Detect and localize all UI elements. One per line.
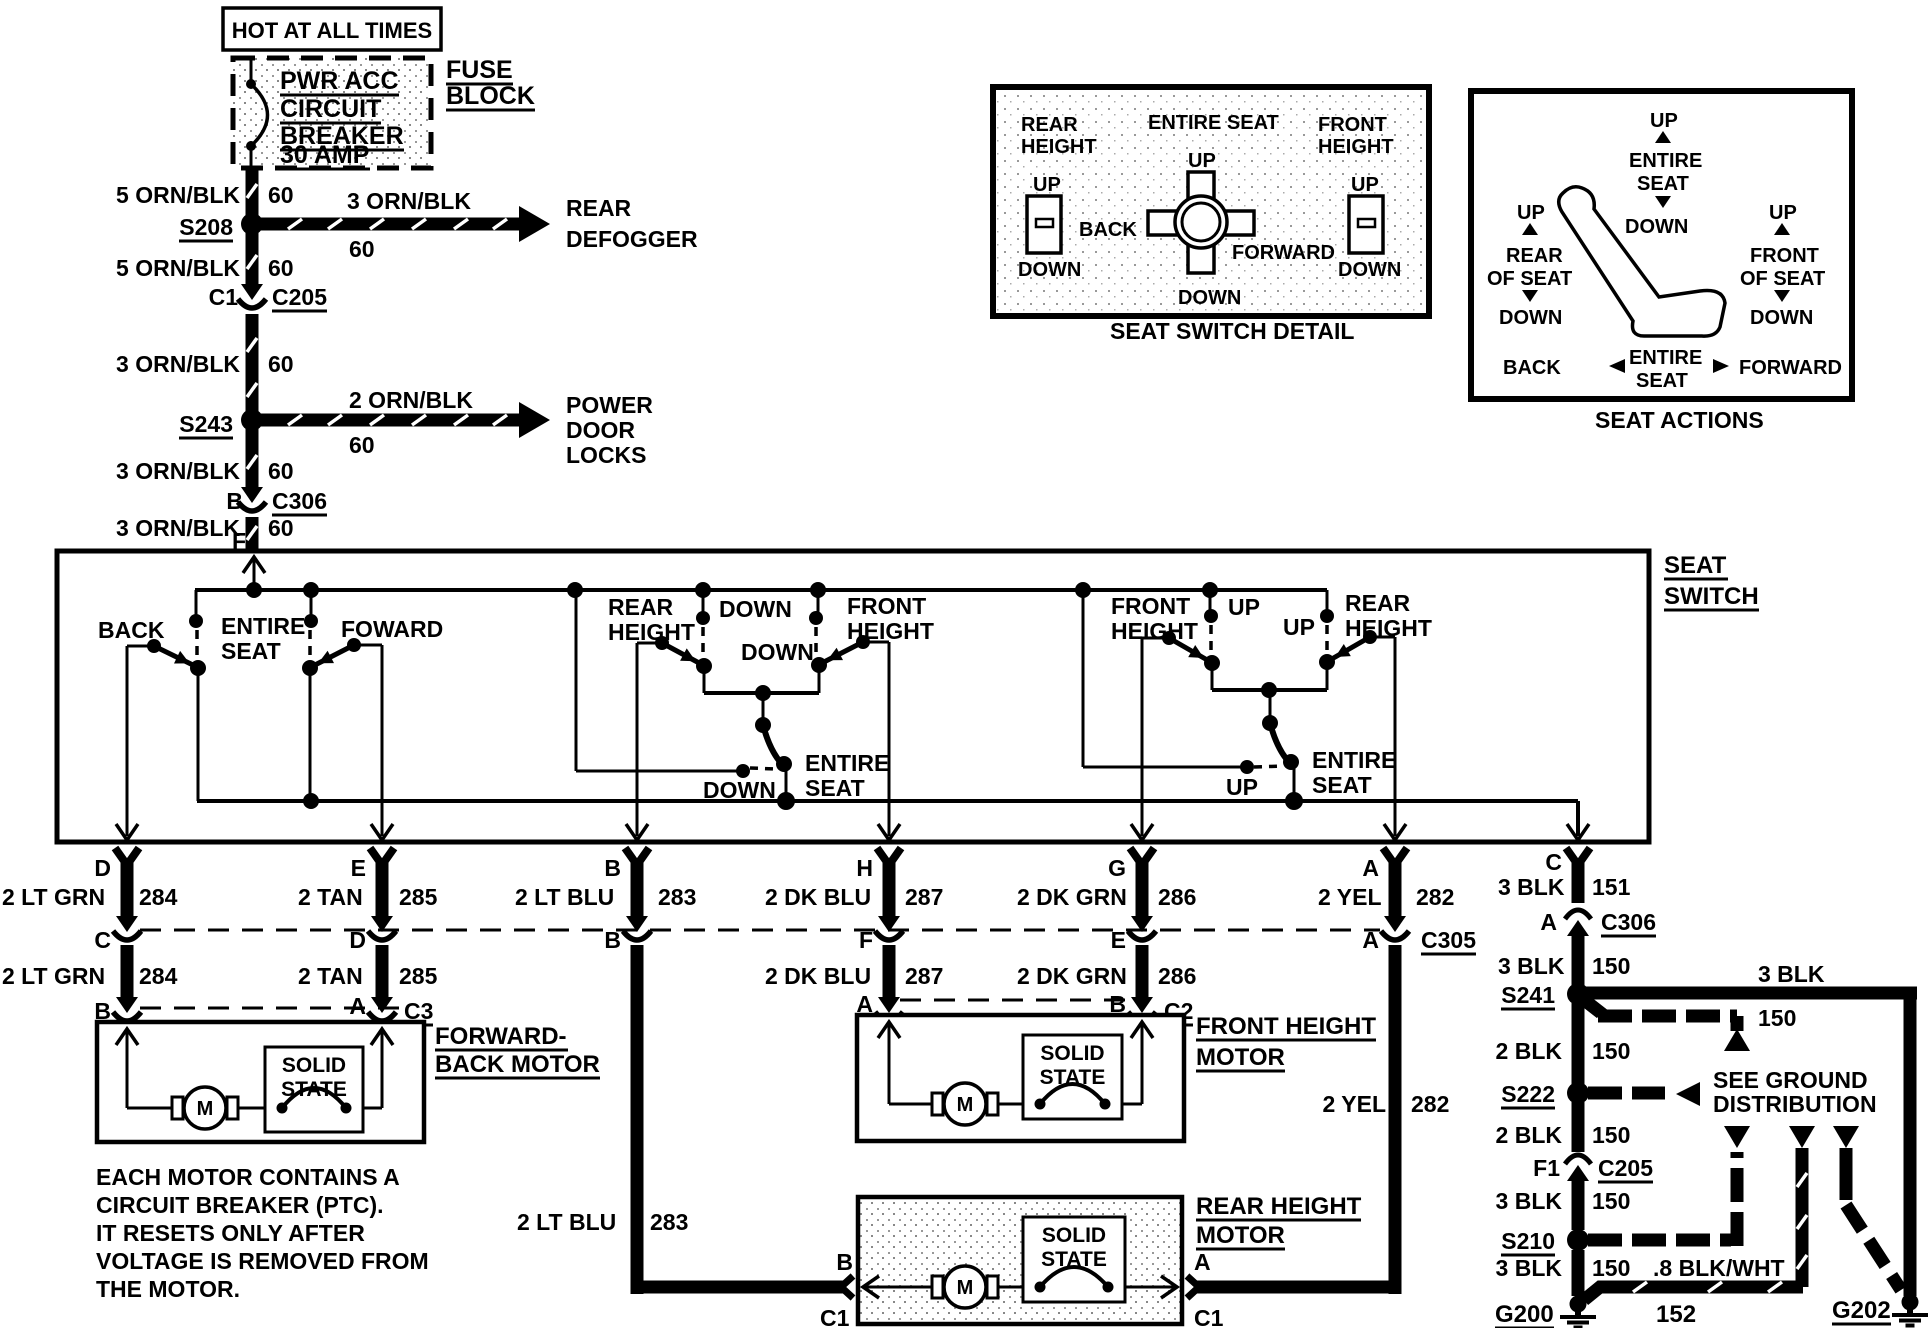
motor interior wire (864, 1286, 932, 1289)
svg-text:UP: UP (1517, 202, 1545, 224)
svg-text:HOT AT ALL TIMES: HOT AT ALL TIMES (232, 18, 432, 43)
svg-text:B: B (836, 1249, 853, 1275)
svg-text:286: 286 (1158, 884, 1196, 910)
ground G202 (1902, 1294, 1919, 1311)
svg-text:HEIGHT: HEIGHT (1111, 618, 1198, 644)
connector pin E of seat switch (370, 848, 382, 865)
switch ENTIRE SEAT (up) (1269, 690, 1272, 720)
svg-text:5 ORN/BLK: 5 ORN/BLK (116, 182, 240, 208)
svg-text:60: 60 (268, 255, 294, 281)
svg-text:M: M (957, 1094, 974, 1116)
svg-text:ENTIRE: ENTIRE (1629, 150, 1702, 172)
svg-text:DOWN: DOWN (1499, 307, 1562, 329)
connector C306 pin A (ground wire) (1565, 910, 1591, 919)
switch REAR HEIGHT (up) (1363, 630, 1377, 644)
wire 2 YEL 282 (down to rear motor) (1389, 945, 1402, 1294)
motor interior wires (126, 1030, 129, 1108)
svg-text:150: 150 (1592, 1255, 1630, 1281)
svg-text:2 DK GRN: 2 DK GRN (1017, 884, 1127, 910)
svg-text:284: 284 (139, 884, 178, 910)
svg-text:D: D (94, 855, 111, 881)
svg-text:SWITCH: SWITCH (1664, 583, 1759, 610)
svg-text:2 DK BLU: 2 DK BLU (765, 963, 871, 989)
svg-text:SOLID: SOLID (1040, 1042, 1104, 1065)
connector C305 pin B (626, 916, 648, 932)
svg-text:PWR ACC: PWR ACC (280, 67, 399, 95)
switch FRONT HEIGHT (up) (1075, 582, 1091, 598)
wire REAR HEIGHT contact to pin B (637, 642, 662, 645)
svg-text:60: 60 (268, 458, 294, 484)
connector pin H of seat switch (877, 848, 889, 865)
svg-text:BACK MOTOR: BACK MOTOR (435, 1051, 600, 1078)
connector pin B of seat switch (625, 848, 637, 865)
connector C305 pin D (371, 916, 393, 932)
svg-text:BACK: BACK (1503, 357, 1561, 379)
svg-text:3 ORN/BLK: 3 ORN/BLK (116, 515, 240, 541)
seat profile drawing (1559, 187, 1725, 336)
svg-text:BACK: BACK (1079, 219, 1137, 241)
svg-text:S241: S241 (1501, 982, 1555, 1008)
svg-text:G: G (1108, 855, 1126, 881)
connector pin G of seat switch (1130, 848, 1142, 865)
svg-text:UP: UP (1351, 174, 1379, 196)
svg-text:FORWARD: FORWARD (1232, 242, 1335, 264)
connector C2 dashed line (900, 999, 1130, 1002)
svg-text:3 ORN/BLK: 3 ORN/BLK (116, 458, 240, 484)
svg-text:DOWN: DOWN (1178, 287, 1241, 309)
wire feed to ENTIRE SEAT down contact (575, 590, 578, 771)
svg-text:3 BLK: 3 BLK (1498, 953, 1565, 979)
svg-text:A: A (1362, 927, 1379, 953)
svg-text:ENTIRE: ENTIRE (1629, 347, 1702, 369)
svg-text:A: A (1362, 855, 1379, 881)
svg-text:S210: S210 (1501, 1228, 1555, 1254)
solid state breaker (1023, 1217, 1125, 1302)
svg-text:B: B (604, 855, 621, 881)
svg-text:C306: C306 (1601, 909, 1656, 935)
svg-text:285: 285 (399, 963, 438, 989)
connector C3 pin B (116, 997, 138, 1013)
svg-text:282: 282 (1416, 884, 1454, 910)
connector C305 pin E (1131, 916, 1153, 932)
wire feed to ENTIRE SEAT up contact (1082, 590, 1085, 767)
svg-text:3 BLK: 3 BLK (1758, 961, 1825, 987)
svg-text:G202: G202 (1832, 1297, 1891, 1324)
svg-text:REAR: REAR (608, 594, 674, 620)
fuse block dashed box (233, 58, 431, 168)
svg-text:FORWARD-: FORWARD- (435, 1023, 567, 1050)
pivot join bar right (1211, 663, 1214, 690)
svg-text:SEAT: SEAT (805, 775, 865, 801)
svg-text:2 ORN/BLK: 2 ORN/BLK (349, 387, 473, 413)
svg-text:2 TAN: 2 TAN (298, 963, 363, 989)
wire 2 LT BLU 283 (down to rear motor) (631, 945, 644, 1294)
svg-text:POWER: POWER (566, 392, 653, 418)
svg-text:F: F (859, 927, 873, 953)
svg-text:M: M (957, 1277, 974, 1299)
svg-text:C: C (1545, 849, 1562, 875)
splice S208 (241, 213, 263, 235)
svg-text:HEIGHT: HEIGHT (847, 618, 934, 644)
motor M (forward-back) (172, 1097, 183, 1119)
svg-text:FRONT: FRONT (1111, 593, 1190, 619)
switch BACK / ENTIRE SEAT (left pole) (195, 590, 198, 620)
svg-text:SOLID: SOLID (282, 1054, 346, 1077)
svg-text:BACK: BACK (98, 617, 165, 643)
connector C3 dashed line (140, 1007, 400, 1010)
svg-text:C306: C306 (272, 488, 327, 514)
wire 3 BLK 150 (S210-G200) (1572, 1250, 1585, 1296)
svg-text:284: 284 (139, 963, 178, 989)
svg-text:FRONT: FRONT (847, 593, 926, 619)
motor M (rear height) (932, 1276, 943, 1298)
connector C205 pin F1 (1565, 1155, 1591, 1164)
svg-text:150: 150 (1758, 1005, 1796, 1031)
svg-text:283: 283 (658, 884, 696, 910)
svg-text:E: E (1111, 927, 1126, 953)
svg-text:2 YEL: 2 YEL (1318, 884, 1382, 910)
connector C3 pin A (371, 997, 393, 1013)
wire 2 LT GRN 284 (lower) (121, 945, 134, 997)
splice S222 (1567, 1082, 1589, 1104)
svg-text:UP: UP (1283, 614, 1315, 640)
svg-text:MOTOR: MOTOR (1196, 1044, 1285, 1071)
svg-text:SEAT: SEAT (1637, 173, 1689, 195)
svg-text:A: A (1540, 909, 1557, 935)
svg-text:2 TAN: 2 TAN (298, 884, 363, 910)
svg-text:30 AMP: 30 AMP (280, 141, 369, 169)
svg-text:SEE GROUND: SEE GROUND (1713, 1067, 1868, 1093)
svg-text:UP: UP (1769, 202, 1797, 224)
svg-text:150: 150 (1592, 1188, 1630, 1214)
wire 2 BLK 150 (S222-C205) (1572, 1102, 1585, 1152)
svg-text:150: 150 (1592, 953, 1630, 979)
svg-text:C1: C1 (1194, 1305, 1224, 1328)
wire 5 ORN/BLK 60 (breaker to S208) (246, 168, 259, 218)
svg-text:DOWN: DOWN (1018, 259, 1081, 281)
svg-text:SEAT: SEAT (221, 638, 281, 664)
seat switch box (57, 551, 1649, 842)
svg-text:DOWN: DOWN (741, 639, 814, 665)
svg-text:60: 60 (268, 182, 294, 208)
wire 3 BLK 150 (1572, 945, 1585, 984)
connector C305 pin C (116, 916, 138, 932)
svg-text:2 DK GRN: 2 DK GRN (1017, 963, 1127, 989)
wire 3 ORN/BLK 60 (C205 to S243) (246, 314, 259, 414)
svg-text:C205: C205 (272, 284, 327, 310)
svg-text:REAR: REAR (1345, 590, 1411, 616)
svg-text:CIRCUIT: CIRCUIT (280, 95, 381, 123)
svg-text:UP: UP (1228, 594, 1260, 620)
connector pin A of seat switch (1383, 848, 1395, 865)
svg-text:2 BLK: 2 BLK (1496, 1122, 1563, 1148)
svg-text:A: A (349, 993, 366, 1019)
connector C205 pin C1 (241, 284, 263, 300)
svg-text:E: E (351, 855, 366, 881)
svg-text:HEIGHT: HEIGHT (1318, 136, 1394, 158)
feed entry arrow (pin F) (253, 556, 256, 590)
wire .8 BLK/WHT 152 (1584, 1287, 1803, 1300)
dashed wire S210 to ground distribution triangle (1588, 1234, 1731, 1247)
switch ENTIRE SEAT (down) (762, 693, 765, 722)
svg-text:B: B (604, 927, 621, 953)
front height motor box (857, 1015, 1184, 1141)
svg-text:VOLTAGE IS REMOVED FROM: VOLTAGE IS REMOVED FROM (96, 1248, 429, 1274)
svg-text:A: A (1194, 1249, 1211, 1275)
svg-text:C1: C1 (820, 1305, 850, 1328)
svg-text:150: 150 (1592, 1122, 1630, 1148)
svg-text:2 LT BLU: 2 LT BLU (515, 884, 614, 910)
svg-text:UP: UP (1650, 110, 1678, 132)
solid state breaker (1023, 1035, 1122, 1119)
svg-text:F1: F1 (1533, 1155, 1560, 1181)
svg-text:287: 287 (905, 963, 943, 989)
wire 2 ORN/BLK 60 arrow to POWER DOOR LOCKS (258, 414, 519, 427)
splice S210 (1567, 1229, 1589, 1251)
connector pin D of seat switch (115, 848, 127, 865)
svg-text:REAR: REAR (566, 195, 632, 221)
svg-text:5 ORN/BLK: 5 ORN/BLK (116, 255, 240, 281)
switch FRONT HEIGHT (down) (856, 635, 870, 649)
lower bus wire to pin C (197, 799, 1578, 803)
svg-text:FOWARD: FOWARD (341, 616, 443, 642)
wire 2 TAN 285 (lower) (376, 945, 389, 997)
svg-text:THE MOTOR.: THE MOTOR. (96, 1276, 240, 1302)
wire 3 BLK 150 (C205-S210) (1572, 1181, 1585, 1230)
connector pin C of seat switch (1566, 848, 1578, 865)
svg-text:60: 60 (268, 351, 294, 377)
svg-text:2 LT GRN: 2 LT GRN (2, 884, 105, 910)
svg-text:DOOR: DOOR (566, 417, 635, 443)
dashed wire 150 to ground distribution (up arrow) (1583, 999, 1601, 1016)
switch REAR HEIGHT (down) (567, 582, 583, 598)
wire 3 ORN/BLK 60 (C306 to seat switch pin F) (246, 517, 259, 551)
svg-text:BLOCK: BLOCK (446, 82, 535, 110)
svg-text:ENTIRE: ENTIRE (805, 750, 889, 776)
svg-text:UP: UP (1188, 150, 1216, 172)
svg-text:286: 286 (1158, 963, 1196, 989)
connector C305 pin F (878, 916, 900, 932)
svg-text:EACH MOTOR CONTAINS A: EACH MOTOR CONTAINS A (96, 1164, 400, 1190)
svg-text:UP: UP (1226, 774, 1258, 800)
solid state breaker (265, 1047, 363, 1132)
svg-text:2 YEL: 2 YEL (1323, 1091, 1387, 1117)
svg-text:2 BLK: 2 BLK (1496, 1038, 1563, 1064)
svg-text:FORWARD: FORWARD (1739, 357, 1842, 379)
svg-text:3 ORN/BLK: 3 ORN/BLK (347, 188, 471, 214)
svg-text:OF SEAT: OF SEAT (1487, 268, 1572, 290)
svg-text:FRONT: FRONT (1750, 245, 1819, 267)
svg-text:SEAT ACTIONS: SEAT ACTIONS (1595, 407, 1764, 433)
svg-text:DOWN: DOWN (719, 596, 792, 622)
svg-text:60: 60 (349, 236, 375, 262)
svg-text:OF SEAT: OF SEAT (1740, 268, 1825, 290)
connector C2 pin A (878, 997, 900, 1013)
motor interior wires (888, 1023, 891, 1104)
svg-text:B: B (226, 488, 243, 514)
svg-text:2 LT BLU: 2 LT BLU (517, 1209, 616, 1235)
svg-text:IT RESETS ONLY AFTER: IT RESETS ONLY AFTER (96, 1220, 365, 1246)
svg-text:150: 150 (1592, 1038, 1630, 1064)
svg-text:S243: S243 (179, 411, 233, 437)
splice S243 (241, 409, 263, 431)
connector C305 dashed line (140, 929, 1380, 932)
pivot join bar (703, 666, 706, 693)
svg-text:ENTIRE: ENTIRE (1312, 747, 1396, 773)
dashed wire to ground distribution (left arrow) (1588, 1087, 1665, 1100)
svg-text:C205: C205 (1598, 1155, 1653, 1181)
svg-text:3 BLK: 3 BLK (1496, 1255, 1563, 1281)
svg-text:LOCKS: LOCKS (566, 442, 647, 468)
svg-text:HEIGHT: HEIGHT (1021, 136, 1097, 158)
svg-text:REAR: REAR (1506, 245, 1563, 267)
svg-text:SOLID: SOLID (1042, 1224, 1106, 1247)
svg-text:285: 285 (399, 884, 438, 910)
svg-text:DEFOGGER: DEFOGGER (566, 226, 698, 252)
svg-text:SEAT: SEAT (1636, 370, 1688, 392)
svg-text:152: 152 (1656, 1301, 1696, 1328)
svg-text:3 ORN/BLK: 3 ORN/BLK (116, 351, 240, 377)
svg-text:3 BLK: 3 BLK (1496, 1188, 1563, 1214)
svg-text:SEAT: SEAT (1664, 552, 1727, 579)
svg-text:DOWN: DOWN (1625, 216, 1688, 238)
svg-text:REAR: REAR (1021, 114, 1078, 136)
svg-text:151: 151 (1592, 874, 1631, 900)
svg-text:M: M (197, 1098, 214, 1120)
svg-text:D: D (349, 927, 366, 953)
connector C306 pin B (241, 487, 263, 503)
motor M (front height) (932, 1093, 943, 1115)
svg-text:FRONT HEIGHT: FRONT HEIGHT (1196, 1013, 1376, 1040)
wire 3 ORN/BLK 60 arrow to REAR DEFOGGER (258, 218, 519, 231)
wire 2 DK GRN 286 (lower) (1136, 945, 1149, 997)
dashed wire from distribution triangle 2 (1789, 1126, 1815, 1148)
wire corner to rear motor pin A (1197, 1281, 1401, 1294)
switch FOWARD (right pole) (303, 582, 319, 598)
svg-text:282: 282 (1411, 1091, 1449, 1117)
svg-text:DOWN: DOWN (1338, 259, 1401, 281)
wire BACK contact to pin D (127, 645, 154, 648)
splice S241 (1572, 936, 1585, 985)
svg-text:HEIGHT: HEIGHT (608, 619, 695, 645)
svg-text:REAR HEIGHT: REAR HEIGHT (1196, 1193, 1362, 1220)
wire 2 BLK 150 (S241-S222) (1572, 1003, 1585, 1084)
forward-back motor box (97, 1022, 424, 1142)
svg-text:3 BLK: 3 BLK (1498, 874, 1565, 900)
seat actions box (1471, 91, 1852, 399)
svg-text:DOWN: DOWN (1750, 307, 1813, 329)
svg-text:HEIGHT: HEIGHT (1345, 615, 1432, 641)
svg-text:C1: C1 (209, 284, 239, 310)
wire 5 ORN/BLK 60 (S208 to C205) (246, 230, 259, 284)
rear height motor box (858, 1197, 1182, 1324)
pin A C1 (1187, 1276, 1199, 1287)
svg-text:SEAT SWITCH DETAIL: SEAT SWITCH DETAIL (1110, 318, 1354, 344)
svg-text:H: H (856, 855, 873, 881)
svg-text:C: C (94, 927, 111, 953)
svg-text:UP: UP (1033, 174, 1061, 196)
svg-text:287: 287 (905, 884, 943, 910)
svg-text:FRONT: FRONT (1318, 114, 1387, 136)
seat switch detail box (993, 87, 1429, 316)
connector C305 pin A (1384, 916, 1406, 932)
top bus wire (195, 588, 1327, 592)
wire REAR HEIGHT contact to pin A (1370, 636, 1395, 639)
ground G200 (1570, 1296, 1587, 1313)
svg-text:60: 60 (268, 515, 294, 541)
svg-text:ENTIRE: ENTIRE (221, 613, 305, 639)
svg-text:SEAT: SEAT (1312, 772, 1372, 798)
svg-text:2 LT GRN: 2 LT GRN (2, 963, 105, 989)
svg-text:283: 283 (650, 1209, 688, 1235)
wires pivots to lower bus (197, 668, 200, 801)
svg-text:MOTOR: MOTOR (1196, 1222, 1285, 1249)
wire corner to rear motor pin B (631, 1281, 843, 1294)
connector C2 pin B (1131, 997, 1153, 1013)
wire FOWARD contact to pin E (354, 644, 382, 647)
svg-text:C305: C305 (1421, 927, 1476, 953)
svg-text:DISTRIBUTION: DISTRIBUTION (1713, 1091, 1877, 1117)
svg-text:G200: G200 (1495, 1301, 1554, 1328)
svg-text:2 DK BLU: 2 DK BLU (765, 884, 871, 910)
wire FRONT HEIGHT contact to pin H (863, 641, 889, 644)
wire 3 BLK (S241 to G202 drop) (1584, 987, 1917, 1000)
svg-text:60: 60 (349, 432, 375, 458)
wire 2 DK BLU 287 (lower) (883, 945, 896, 997)
svg-text:CIRCUIT BREAKER (PTC).: CIRCUIT BREAKER (PTC). (96, 1192, 384, 1218)
circuit breaker PWR ACC 30 AMP (250, 58, 253, 80)
wire 3 ORN/BLK 60 (S243 to C306) (246, 426, 259, 487)
svg-text:S222: S222 (1501, 1081, 1555, 1107)
label HOT AT ALL TIMES (223, 8, 441, 50)
wire FRONT HEIGHT contact to pin G (1142, 637, 1169, 640)
pin B C1 (841, 1276, 853, 1287)
svg-text:FUSE: FUSE (446, 56, 513, 84)
svg-text:ENTIRE SEAT: ENTIRE SEAT (1148, 112, 1279, 134)
dashed wire from distribution triangle 3 to G202 (1833, 1126, 1859, 1148)
svg-text:S208: S208 (179, 214, 233, 240)
svg-text:.8 BLK/WHT: .8 BLK/WHT (1653, 1255, 1785, 1281)
